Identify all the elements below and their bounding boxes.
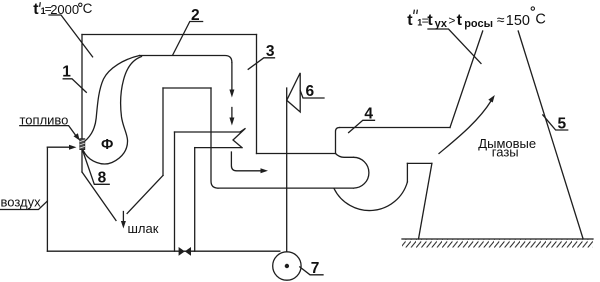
gas duct top line (furnace exit, label 2 line) [140, 56, 232, 63]
gas flow arrow segment b [231, 108, 233, 119]
air inlet vertical pipe [46, 147, 48, 251]
svg-text:t: t [407, 12, 413, 29]
svg-text:8: 8 [98, 170, 107, 187]
burner hatch marks [80, 140, 85, 148]
water pipe A horizontal [175, 131, 241, 133]
label 8 leader [83, 152, 109, 185]
air label pointer line [1, 201, 48, 210]
svg-text:>: > [448, 14, 455, 28]
ground line [402, 238, 593, 240]
svg-text:ух: ух [435, 18, 448, 30]
flame right outline [81, 57, 142, 164]
convective shaft partition right wall [211, 88, 218, 188]
slag arrowhead [121, 221, 126, 229]
gas flow arrowhead a [229, 90, 234, 98]
fan inlet transition vertical [336, 128, 340, 154]
pipe break zigzag symbol [233, 128, 246, 147]
svg-text:С: С [535, 12, 545, 28]
water pipe B horizontal [195, 147, 242, 149]
water pipe B vertical [194, 148, 196, 252]
furnace box right wall [256, 35, 258, 154]
label 1 leader [63, 79, 86, 93]
svg-text:воздух: воздух [1, 194, 42, 209]
damper line from flag 6 down to pump [286, 88, 288, 266]
flame left outline [81, 56, 140, 145]
chimney left wall [450, 31, 483, 128]
svg-text:2: 2 [191, 7, 200, 24]
water pipe A vertical [174, 132, 176, 251]
fan inlet cap semicircle [354, 157, 369, 188]
svg-text:t: t [427, 12, 433, 29]
svg-text:5: 5 [558, 115, 567, 132]
label 7 leader [300, 267, 323, 275]
flue gases arrowhead [488, 95, 495, 103]
convective shaft partition top [163, 87, 211, 89]
fuel label leader with arrow [20, 126, 77, 137]
svg-text:3: 3 [266, 43, 275, 60]
gas flow elbow arrow below break [231, 152, 261, 171]
svg-text:росы: росы [464, 18, 493, 30]
svg-text:газы: газы [492, 145, 519, 160]
bottom water line from air corner to pump [47, 250, 279, 252]
fan scroll arc [334, 182, 407, 211]
damper flag 6 triangle [287, 73, 301, 112]
furnace temperature label t'1=2000C [33, 1, 92, 18]
fuel arrowhead [74, 133, 80, 140]
svg-text:6: 6 [306, 83, 315, 100]
svg-text:t: t [33, 1, 39, 18]
label 2 leader [173, 22, 203, 55]
pump circle 7 [273, 252, 301, 280]
furnace hopper left slope [82, 172, 116, 221]
burner 8 body [80, 139, 85, 150]
fan outlet left vertical [406, 163, 408, 182]
t1out label underline and leader [428, 29, 481, 64]
label 3 leader [248, 58, 274, 70]
pump center dot [285, 264, 289, 268]
label 5 leader [543, 115, 568, 130]
flue duct bottom line to fan inlet [218, 187, 354, 189]
fan inlet cap top line [336, 154, 354, 158]
air arrowhead [69, 145, 77, 150]
label 4 leader [349, 120, 375, 132]
svg-text:7: 7 [311, 260, 320, 277]
svg-text:2000: 2000 [50, 2, 79, 17]
label 6 leader [300, 91, 324, 99]
svg-text:t: t [457, 12, 463, 29]
duct 4 top line to chimney [340, 127, 451, 129]
exit gas temperature label t"1=tux>trosy=150C [407, 7, 546, 30]
valve left triangle [179, 247, 185, 256]
svg-text:≈: ≈ [497, 12, 505, 28]
flue gases curved arrow [439, 101, 491, 154]
t1 label leader [49, 15, 93, 57]
ground hatching [402, 240, 593, 248]
svg-text:топливо: топливо [20, 112, 69, 127]
svg-text:1: 1 [62, 64, 71, 81]
air arrow line to burner [47, 146, 69, 148]
chimney right wall [518, 31, 583, 239]
gas flow arrow segment a [231, 63, 233, 91]
valve right triangle [185, 247, 191, 256]
furnace box left wall [81, 35, 83, 173]
svg-text:С: С [83, 1, 93, 16]
fan outlet top line [407, 162, 432, 164]
svg-text:4: 4 [364, 105, 373, 122]
svg-text:150: 150 [506, 13, 530, 29]
gas flow elbow arrowhead [261, 168, 269, 173]
furnace box top wall [82, 34, 257, 36]
furnace hopper right slope [127, 175, 163, 213]
svg-text:шлак: шлак [128, 221, 159, 236]
convective shaft partition left wall [162, 88, 164, 175]
svg-text:Ф: Ф [101, 137, 113, 153]
flue duct upper line from furnace wall [257, 153, 336, 155]
slag arrow [122, 212, 124, 223]
gas flow arrowhead b [229, 118, 234, 126]
fan outlet right slant to ground [419, 163, 432, 239]
